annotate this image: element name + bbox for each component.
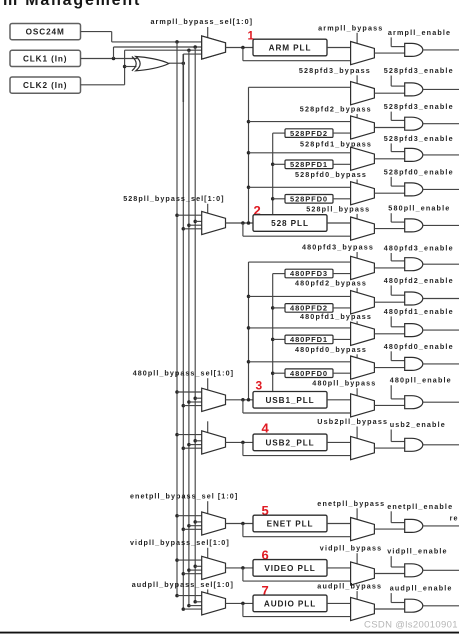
svg-text:528pfd3_bypass: 528pfd3_bypass	[299, 66, 371, 75]
svg-text:480pll_bypass: 480pll_bypass	[312, 379, 376, 388]
svg-text:528PFD2: 528PFD2	[290, 129, 328, 138]
svg-text:USB1_PLL: USB1_PLL	[265, 396, 314, 405]
svg-text:528pfd3_enable: 528pfd3_enable	[384, 66, 454, 75]
svg-text:528pll_bypass: 528pll_bypass	[306, 204, 370, 213]
svg-text:528pfd0_bypass: 528pfd0_bypass	[295, 170, 367, 179]
svg-text:USB2_PLL: USB2_PLL	[265, 438, 314, 447]
svg-text:528pfd3_enable: 528pfd3_enable	[384, 102, 454, 111]
svg-text:armpll_bypass: armpll_bypass	[318, 23, 383, 32]
svg-text:m Management: m Management	[3, 0, 141, 9]
svg-text:4: 4	[262, 421, 270, 436]
svg-text:480pfd0_bypass: 480pfd0_bypass	[295, 345, 367, 354]
svg-text:580pll_enable: 580pll_enable	[388, 204, 450, 213]
svg-text:ENET PLL: ENET PLL	[267, 520, 314, 529]
svg-text:audpll_enable: audpll_enable	[390, 584, 453, 593]
svg-text:480pfd2_bypass: 480pfd2_bypass	[295, 278, 367, 287]
svg-text:vidpll_bypass_sel[1:0]: vidpll_bypass_sel[1:0]	[130, 538, 230, 547]
svg-text:re: re	[450, 513, 459, 522]
svg-text:480PFD3: 480PFD3	[290, 269, 328, 278]
svg-text:528pfd3_enable: 528pfd3_enable	[384, 134, 454, 143]
svg-text:480pfd0_enable: 480pfd0_enable	[384, 342, 454, 351]
svg-text:CLK1 (In): CLK1 (In)	[23, 54, 67, 63]
svg-text:480PFD1: 480PFD1	[290, 335, 328, 344]
svg-text:Usb2pll_bypass: Usb2pll_bypass	[317, 417, 388, 426]
svg-text:3: 3	[256, 379, 263, 393]
svg-text:528 PLL: 528 PLL	[271, 219, 309, 228]
svg-text:480pll_bypass_sel[1:0]: 480pll_bypass_sel[1:0]	[133, 369, 234, 378]
svg-text:enetpll_enable: enetpll_enable	[387, 502, 453, 511]
svg-text:audpll_bypass_sel[1:0]: audpll_bypass_sel[1:0]	[132, 580, 234, 589]
svg-text:528pfd0_enable: 528pfd0_enable	[384, 167, 454, 176]
svg-text:vidpll_bypass: vidpll_bypass	[320, 544, 383, 553]
svg-text:armpll_bypass_sel[1:0]: armpll_bypass_sel[1:0]	[151, 17, 254, 26]
svg-text:480pll_enable: 480pll_enable	[390, 376, 452, 385]
svg-text:usb2_enable: usb2_enable	[390, 420, 446, 429]
svg-text:480pfd3_enable: 480pfd3_enable	[384, 244, 454, 253]
svg-text:ARM PLL: ARM PLL	[269, 44, 312, 53]
svg-text:528PFD1: 528PFD1	[290, 160, 328, 169]
svg-text:CLK2 (In): CLK2 (In)	[23, 81, 67, 90]
svg-text:OSC24M: OSC24M	[26, 28, 65, 37]
svg-text:480pfd2_enable: 480pfd2_enable	[384, 276, 454, 285]
svg-text:528pfd2_bypass: 528pfd2_bypass	[300, 105, 372, 114]
svg-text:VIDEO PLL: VIDEO PLL	[264, 564, 315, 573]
svg-text:enetpll_bypass: enetpll_bypass	[317, 499, 385, 508]
svg-text:480PFD0: 480PFD0	[290, 369, 328, 378]
svg-text:vidpll_enable: vidpll_enable	[387, 547, 448, 556]
svg-text:armpll_enable: armpll_enable	[388, 28, 451, 37]
svg-text:480pfd3_bypass: 480pfd3_bypass	[302, 243, 374, 252]
svg-text:528PFD0: 528PFD0	[290, 195, 328, 204]
svg-text:CSDN @ls20010901: CSDN @ls20010901	[364, 620, 458, 631]
svg-text:480pfd1_bypass: 480pfd1_bypass	[300, 312, 372, 321]
svg-text:528pll_bypass_sel[1:0]: 528pll_bypass_sel[1:0]	[123, 194, 224, 203]
svg-text:480pfd1_enable: 480pfd1_enable	[384, 307, 454, 316]
svg-text:enetpll_bypass_sel [1:0]: enetpll_bypass_sel [1:0]	[130, 492, 238, 501]
svg-text:AUDIO PLL: AUDIO PLL	[264, 599, 316, 608]
svg-text:528pfd1_bypass: 528pfd1_bypass	[300, 140, 372, 149]
svg-text:audpll_bypass: audpll_bypass	[317, 582, 382, 591]
